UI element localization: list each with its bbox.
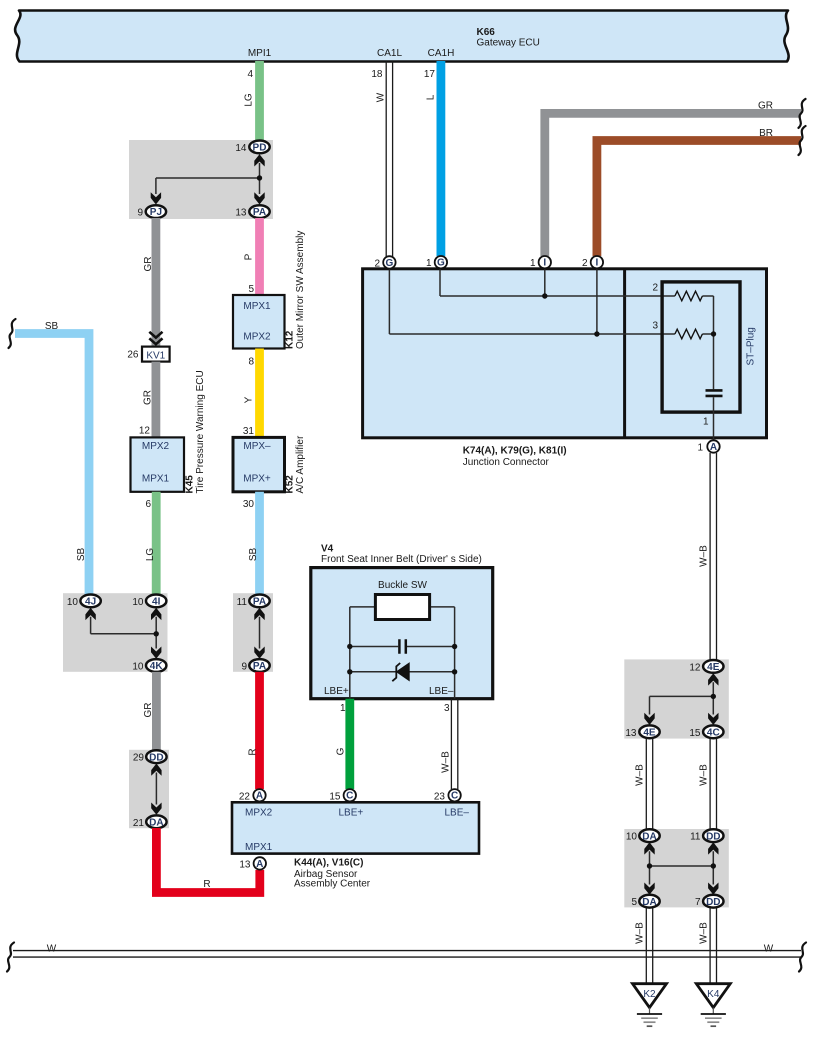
capacitor in ST-Plug xyxy=(706,390,723,396)
capacitor row in V4 xyxy=(347,639,457,654)
svg-text:Y: Y xyxy=(244,396,255,403)
svg-text:10: 10 xyxy=(132,597,144,608)
svg-text:MPX1: MPX1 xyxy=(245,842,273,853)
svg-text:DD: DD xyxy=(706,831,720,842)
wire W-B from junction pin 1A to connector 12 4E xyxy=(699,453,717,660)
wire R from pin 9PA to K44 pin 22A xyxy=(248,672,260,789)
pin 12 4E xyxy=(689,660,723,673)
svg-text:30: 30 xyxy=(243,499,255,510)
wire P from pin PA to K12 pin 5 xyxy=(244,218,260,295)
svg-text:9: 9 xyxy=(241,662,247,673)
break symbol GR wire xyxy=(799,99,806,128)
break symbol W wire left xyxy=(7,943,14,972)
zener diode row in V4 xyxy=(347,663,457,681)
pin 14 PD xyxy=(235,141,269,155)
svg-text:1: 1 xyxy=(703,417,709,428)
relay block KV1 pin 26 xyxy=(127,347,169,362)
svg-text:10: 10 xyxy=(132,662,144,673)
svg-text:K45: K45 xyxy=(185,475,196,494)
svg-text:11: 11 xyxy=(237,597,248,608)
svg-text:10: 10 xyxy=(626,832,638,843)
svg-text:13: 13 xyxy=(239,859,251,870)
svg-text:LBE+: LBE+ xyxy=(324,686,349,697)
svg-text:K74(A), K79(G), K81(I): K74(A), K79(G), K81(I) xyxy=(463,445,567,456)
wire W horizontal double line xyxy=(13,944,801,958)
connector shade box 12 4E / 13 4E / 15 4C xyxy=(624,659,729,738)
svg-text:1: 1 xyxy=(530,258,536,269)
wire GR from KV1 to K45 pin 12 xyxy=(139,362,156,438)
svg-text:SB: SB xyxy=(76,548,87,562)
svg-text:PA: PA xyxy=(253,597,266,608)
svg-text:GR: GR xyxy=(143,703,154,718)
wire BR from right break to junction pin 2I xyxy=(597,128,801,256)
svg-text:DA: DA xyxy=(642,897,656,908)
amplifier box K52 A/C Amplifier xyxy=(233,435,306,493)
svg-text:MPX+: MPX+ xyxy=(243,474,271,485)
wire from capacitor to pin 1A xyxy=(703,397,714,440)
svg-text:G: G xyxy=(386,258,394,269)
connector link 29DD to 21DA xyxy=(151,764,161,815)
svg-text:4I: 4I xyxy=(152,597,161,608)
svg-text:K52: K52 xyxy=(285,475,296,494)
svg-text:3: 3 xyxy=(652,321,658,332)
svg-text:4J: 4J xyxy=(85,597,96,608)
svg-text:Gateway ECU: Gateway ECU xyxy=(477,38,540,49)
svg-text:1: 1 xyxy=(340,703,346,714)
svg-text:1: 1 xyxy=(697,443,703,454)
svg-text:BR: BR xyxy=(759,128,773,139)
svg-text:W–B: W–B xyxy=(441,751,452,773)
svg-text:MPI1: MPI1 xyxy=(248,48,272,59)
pin 1 A of junction connector xyxy=(697,440,719,453)
connector shade box 4J/4I/4K xyxy=(63,593,168,672)
svg-text:W–B: W–B xyxy=(699,545,710,567)
pin 9 PA xyxy=(241,659,269,672)
wire L (CA1H, pin 17) to junction pin 1G xyxy=(424,61,441,256)
ECU box K45 Tire Pressure Warning ECU xyxy=(131,370,207,493)
svg-text:17: 17 xyxy=(424,69,436,80)
svg-text:GR: GR xyxy=(143,390,154,405)
svg-text:A: A xyxy=(256,859,263,870)
pin 10 DA xyxy=(626,829,660,842)
connector links 12 4E to 13 4E and 15 4C xyxy=(644,673,718,725)
wire W-B from 13 4E to 10DA xyxy=(635,738,653,829)
svg-text:A/C Amplifier: A/C Amplifier xyxy=(295,435,306,493)
svg-text:V4: V4 xyxy=(321,544,334,555)
svg-text:L: L xyxy=(426,94,437,100)
svg-text:4E: 4E xyxy=(643,727,656,738)
wire Y from K12 pin 8 to K52 pin 31 xyxy=(243,349,260,438)
svg-text:23: 23 xyxy=(434,791,446,802)
wire W-B from 15 4C to 11DD xyxy=(699,738,717,829)
svg-text:DD: DD xyxy=(706,897,720,908)
svg-text:11: 11 xyxy=(690,832,701,843)
wire SB from K52 pin 30 to connector 11PA xyxy=(243,492,260,595)
pin 10 4J xyxy=(67,595,101,609)
svg-text:K44(A), V16(C): K44(A), V16(C) xyxy=(294,858,363,869)
pin 15 C xyxy=(329,789,356,802)
svg-text:Buckle SW: Buckle SW xyxy=(378,580,427,591)
pin 21 DA xyxy=(133,815,167,828)
pin 2 G xyxy=(374,256,395,269)
svg-text:K4: K4 xyxy=(707,989,720,1000)
svg-text:29: 29 xyxy=(133,753,145,764)
connector links 10DA/11DD to 5DA/7DD xyxy=(644,842,718,895)
svg-text:LBE+: LBE+ xyxy=(339,808,364,819)
wire SB from left break to connector 4J xyxy=(15,321,89,595)
svg-text:LG: LG xyxy=(145,548,156,562)
svg-text:2: 2 xyxy=(652,283,658,294)
wire GR from pin PJ to KV1 xyxy=(143,218,156,347)
svg-text:I: I xyxy=(543,258,546,269)
svg-text:6: 6 xyxy=(145,499,151,510)
pin 15 4C xyxy=(689,725,723,738)
svg-text:CA1H: CA1H xyxy=(428,48,455,59)
pin 1 G xyxy=(426,256,447,269)
ECU bus K66 Gateway ECU xyxy=(15,11,789,62)
svg-text:5: 5 xyxy=(631,897,637,908)
svg-text:GR: GR xyxy=(143,257,154,272)
break symbol SB wire xyxy=(9,319,16,348)
svg-text:DA: DA xyxy=(642,831,656,842)
wire R from pin 21DA to K44 pin 13A xyxy=(156,828,259,893)
svg-text:W–B: W–B xyxy=(699,922,710,944)
svg-text:Assembly Center: Assembly Center xyxy=(294,879,371,890)
junction connector box K74(A) K79(G) K81(I) xyxy=(363,269,767,468)
svg-text:PA: PA xyxy=(253,661,266,672)
svg-text:5: 5 xyxy=(248,284,254,295)
svg-text:W: W xyxy=(47,944,57,955)
svg-text:K2: K2 xyxy=(643,989,656,1000)
pin 10 4I xyxy=(132,595,166,609)
pin 10 4K xyxy=(132,659,166,672)
connector shade box 10DA/11DD/5DA/7DD xyxy=(624,829,729,907)
svg-text:A: A xyxy=(256,791,263,802)
wire W-B from V4 pin 3 to K44 pin 23C xyxy=(441,699,458,789)
connector links 4I to 4J and 4K xyxy=(85,608,161,659)
resistor row 2 xyxy=(652,283,702,301)
svg-text:Tire Pressure Warning ECU: Tire Pressure Warning ECU xyxy=(195,370,206,493)
internal wiring row 3 (pins 2G, 2I to resistor 3) xyxy=(389,269,713,337)
switch box K12 Outer Mirror SW Assembly xyxy=(233,231,306,349)
left branch wire LBE+ xyxy=(349,607,351,699)
svg-text:12: 12 xyxy=(139,426,151,437)
svg-text:MPX1: MPX1 xyxy=(243,301,271,312)
internal wiring row 2 (pins 1G, 1I to resistor 2) xyxy=(440,269,714,299)
connector shade box 11PA/9PA xyxy=(233,593,273,672)
wire G from V4 pin 1 to K44 pin 15C xyxy=(336,699,350,789)
vertical net to capacitor xyxy=(711,296,716,389)
svg-text:12: 12 xyxy=(689,662,701,673)
svg-text:4E: 4E xyxy=(707,662,720,673)
svg-text:2: 2 xyxy=(582,258,588,269)
ground K2 xyxy=(633,984,667,1026)
svg-text:SB: SB xyxy=(45,321,59,332)
svg-text:14: 14 xyxy=(235,143,247,154)
svg-text:CA1L: CA1L xyxy=(377,48,402,59)
pin 13 4E xyxy=(625,725,659,738)
svg-text:8: 8 xyxy=(248,357,254,368)
ST-Plug box xyxy=(662,282,756,412)
pin 5 DA xyxy=(631,895,659,908)
svg-text:LBE–: LBE– xyxy=(445,808,470,819)
svg-text:DD: DD xyxy=(149,752,163,763)
pin 11 DD xyxy=(690,829,723,842)
pin 23 C xyxy=(434,789,461,802)
svg-text:G: G xyxy=(437,258,445,269)
svg-text:Outer Mirror SW Assembly: Outer Mirror SW Assembly xyxy=(295,231,306,349)
pin 22 A xyxy=(239,789,266,802)
svg-text:2: 2 xyxy=(374,258,380,269)
svg-text:R: R xyxy=(248,748,259,755)
svg-text:4C: 4C xyxy=(707,727,720,738)
svg-text:I: I xyxy=(596,258,599,269)
svg-text:W–B: W–B xyxy=(635,922,646,944)
wire GR from right break to junction pin 1I xyxy=(545,101,801,257)
svg-text:W: W xyxy=(376,92,387,102)
ECU box K44 Airbag Sensor Assembly Center xyxy=(232,802,479,889)
svg-text:MPX2: MPX2 xyxy=(142,441,170,452)
connector link 11PA to 9PA xyxy=(254,608,264,659)
svg-text:13: 13 xyxy=(235,208,247,219)
buckle switch in V4 xyxy=(350,580,455,620)
page link chevrons above KV1 xyxy=(149,332,162,344)
svg-text:22: 22 xyxy=(239,791,251,802)
resistor row 3 xyxy=(652,321,702,339)
svg-text:G: G xyxy=(336,747,347,755)
svg-text:18: 18 xyxy=(371,69,383,80)
pin 29 DD xyxy=(133,750,167,763)
pin 2 I xyxy=(582,256,603,269)
pin 13 PA xyxy=(235,205,269,218)
wire LG from K66 MPI1 pin 4 to connector PD xyxy=(244,61,260,141)
labels LBE+ LBE- in V4 xyxy=(324,686,454,697)
svg-text:R: R xyxy=(203,879,210,890)
svg-text:3: 3 xyxy=(444,703,450,714)
pin 11 PA xyxy=(237,595,270,609)
pin 13 A xyxy=(239,857,266,870)
right branch wire LBE- xyxy=(454,607,456,699)
svg-text:PJ: PJ xyxy=(150,207,162,218)
svg-text:SB: SB xyxy=(248,548,259,562)
svg-text:W–B: W–B xyxy=(699,764,710,786)
svg-text:1: 1 xyxy=(426,258,432,269)
svg-text:Junction Connector: Junction Connector xyxy=(463,457,550,468)
svg-text:MPX2: MPX2 xyxy=(243,332,271,343)
connector links PD to PJ and PA xyxy=(151,154,265,204)
svg-text:PA: PA xyxy=(253,207,266,218)
connector shade box PD/PJ/PA xyxy=(129,140,273,219)
svg-text:ST–Plug: ST–Plug xyxy=(746,327,757,365)
pin 9 PJ xyxy=(137,205,166,218)
svg-text:P: P xyxy=(244,253,255,260)
wire W-B from 5DA to ground K2 xyxy=(635,908,653,984)
svg-text:LG: LG xyxy=(244,93,255,107)
svg-text:A: A xyxy=(710,442,717,453)
component box V4 Front Seat Inner Belt xyxy=(311,544,493,699)
svg-text:9: 9 xyxy=(137,208,143,219)
svg-text:W–B: W–B xyxy=(635,764,646,786)
ground K4 xyxy=(696,984,730,1026)
connector shade box 29DD/21DA xyxy=(129,750,169,828)
svg-text:26: 26 xyxy=(127,350,139,361)
svg-text:10: 10 xyxy=(67,597,79,608)
wire GR from connector 4K to pin 29DD xyxy=(143,672,156,751)
break symbol BR wire xyxy=(799,126,806,155)
pin 1 I xyxy=(530,256,551,269)
svg-text:MPX–: MPX– xyxy=(243,441,271,452)
svg-text:15: 15 xyxy=(329,791,341,802)
svg-text:C: C xyxy=(346,791,353,802)
svg-text:15: 15 xyxy=(689,728,701,739)
wire W-B from 7DD to ground K4 xyxy=(699,908,717,984)
svg-text:MPX2: MPX2 xyxy=(245,808,273,819)
svg-text:7: 7 xyxy=(695,897,701,908)
svg-text:C: C xyxy=(451,791,458,802)
svg-text:LBE–: LBE– xyxy=(429,686,454,697)
svg-text:4: 4 xyxy=(247,69,253,80)
svg-text:K66: K66 xyxy=(477,27,496,38)
svg-text:PD: PD xyxy=(253,143,267,154)
pin 7 DD xyxy=(695,895,724,908)
wire W (CA1L, pin 18) double line to junction pin 2G xyxy=(371,61,392,256)
svg-text:31: 31 xyxy=(243,426,255,437)
svg-text:KV1: KV1 xyxy=(146,350,165,361)
svg-text:DA: DA xyxy=(149,817,163,828)
svg-text:21: 21 xyxy=(133,818,145,829)
svg-text:4K: 4K xyxy=(150,661,164,672)
svg-text:Front Seat Inner Belt (Driver': Front Seat Inner Belt (Driver' s Side) xyxy=(321,554,482,565)
svg-text:GR: GR xyxy=(758,101,773,112)
svg-text:MPX1: MPX1 xyxy=(142,474,170,485)
svg-text:W: W xyxy=(764,944,774,955)
break symbol W wire right xyxy=(799,943,806,972)
wire LG from K45 pin 6 to connector 4I xyxy=(145,492,156,595)
svg-text:13: 13 xyxy=(625,728,637,739)
svg-text:K12: K12 xyxy=(285,330,296,349)
